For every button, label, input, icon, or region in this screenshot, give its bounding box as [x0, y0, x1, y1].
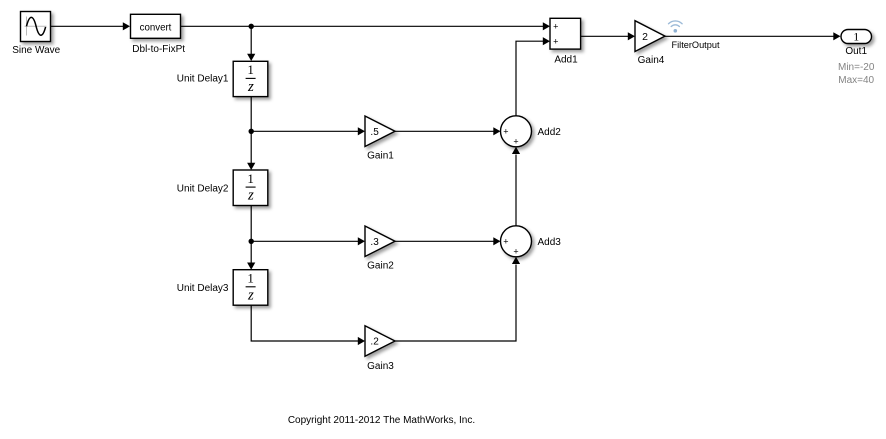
- svg-text:Unit Delay3: Unit Delay3: [177, 283, 229, 294]
- wire Add2 up to Add1 port2: [516, 37, 550, 116]
- svg-text:Copyright 2011-2012 The MathWo: Copyright 2011-2012 The MathWorks, Inc.: [288, 415, 475, 426]
- svg-text:Unit Delay2: Unit Delay2: [177, 183, 229, 194]
- wire Unit Delay1 down to node B: [250, 97, 252, 132]
- svg-text:Dbl-to-FixPt: Dbl-to-FixPt: [132, 44, 185, 55]
- svg-text:Sine Wave: Sine Wave: [12, 45, 60, 56]
- wire Unit Delay3 to Gain3: [251, 305, 365, 345]
- svg-text:+: +: [513, 247, 518, 257]
- svg-text:1: 1: [853, 29, 859, 43]
- svg-text:z: z: [247, 287, 254, 303]
- svg-text:Add2: Add2: [538, 127, 562, 138]
- wire Unit Delay2 down to node C: [250, 206, 252, 242]
- svg-text:+: +: [503, 127, 508, 137]
- svg-text:Gain2: Gain2: [367, 261, 394, 272]
- gain Gain2: [365, 226, 395, 257]
- gain Gain3: [365, 326, 395, 356]
- wire Add1 to Gain4: [581, 32, 635, 40]
- wire node A down to Unit Delay1: [247, 26, 255, 61]
- wire node C down to Unit Delay3: [247, 241, 255, 269]
- svg-text:Out1: Out1: [845, 46, 867, 57]
- svg-text:1: 1: [247, 171, 254, 186]
- block Unit Delay1: [233, 61, 268, 96]
- wire Gain2 to Add3: [395, 237, 501, 245]
- block Unit Delay2: [233, 170, 268, 206]
- junction node A on top wire: [249, 24, 254, 29]
- svg-text:1: 1: [247, 62, 254, 77]
- svg-text:convert: convert: [140, 22, 172, 33]
- svg-text:Gain1: Gain1: [367, 151, 394, 162]
- wire Gain3 up to Add3 port2: [395, 257, 520, 341]
- junction node C: [249, 239, 254, 244]
- block Sine Wave: [21, 12, 51, 42]
- gain Gain1: [365, 116, 395, 147]
- wire Gain1 to Add2: [395, 127, 501, 135]
- svg-text:Gain4: Gain4: [638, 55, 665, 66]
- svg-text:.2: .2: [370, 337, 379, 348]
- svg-text:1: 1: [247, 271, 254, 286]
- svg-text:+: +: [513, 137, 518, 147]
- outport Out1: [841, 29, 872, 43]
- wire Add3 up to Add2 port2: [512, 147, 520, 226]
- svg-text:Add3: Add3: [538, 237, 562, 248]
- svg-text:+: +: [553, 36, 558, 46]
- block Unit Delay3: [233, 270, 268, 306]
- block Dbl-to-FixPt (convert) U1: [131, 14, 181, 38]
- svg-text:z: z: [247, 188, 254, 204]
- svg-text:Min=-20: Min=-20: [838, 62, 875, 73]
- svg-text:z: z: [247, 79, 254, 95]
- svg-text:+: +: [503, 237, 508, 247]
- sum Add3: [501, 226, 532, 257]
- wire Sine Wave to Dbl-to-FixPt: [51, 22, 131, 30]
- svg-text:.5: .5: [370, 127, 379, 138]
- junction node B: [249, 129, 254, 134]
- sum Add1: [550, 18, 581, 49]
- gain Gain4: [635, 21, 665, 52]
- svg-text:Unit Delay1: Unit Delay1: [177, 74, 229, 85]
- wire Gain4 to Out1 (signal FilterOutput): [665, 32, 841, 40]
- svg-text:Max=40: Max=40: [838, 75, 874, 86]
- svg-text:Gain3: Gain3: [367, 361, 394, 372]
- svg-text:Add1: Add1: [554, 55, 578, 66]
- wire node B to Gain1: [251, 127, 365, 135]
- svg-text:+: +: [553, 22, 558, 32]
- svg-text:.3: .3: [370, 237, 379, 248]
- svg-text:2: 2: [642, 31, 648, 43]
- wire Dbl-to-FixPt to Add1 port1: [181, 22, 551, 30]
- sum Add2: [501, 116, 532, 147]
- wire node C to Gain2: [251, 237, 365, 245]
- logging badge (wifi) on FilterOutput signal: [669, 21, 683, 33]
- svg-text:FilterOutput: FilterOutput: [672, 40, 720, 50]
- wire node B down to Unit Delay2: [247, 131, 255, 170]
